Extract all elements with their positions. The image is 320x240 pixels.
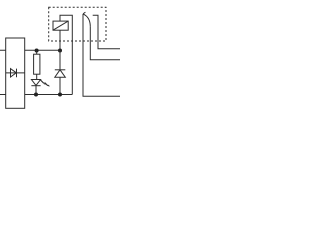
wire coil bottom lead (59, 30, 61, 50)
wire bottom rail right (60, 94, 72, 96)
relay contact blade (83, 12, 85, 14)
relay K1 enclosure (dashed box) (49, 7, 106, 41)
node junction bottom diode (58, 93, 62, 97)
connector J1 (terminal block) (6, 38, 25, 108)
relay coil K1 (53, 21, 68, 30)
relay contact pole terminal (83, 14, 120, 96)
relay contact common terminal (90, 26, 120, 59)
wire bottom rail left (0, 94, 60, 96)
relay contact fixed terminal 2 (93, 15, 120, 49)
diode D3 flyback (55, 50, 66, 94)
node junction top coil (58, 49, 62, 53)
LED D2 (31, 80, 49, 95)
node junction top resistor (35, 49, 39, 53)
wire top rail (0, 49, 60, 51)
diode D1 inside connector (6, 69, 25, 78)
resistor R1 (34, 50, 40, 79)
node junction bottom LED (34, 93, 38, 97)
wire coil top lead (60, 15, 72, 94)
